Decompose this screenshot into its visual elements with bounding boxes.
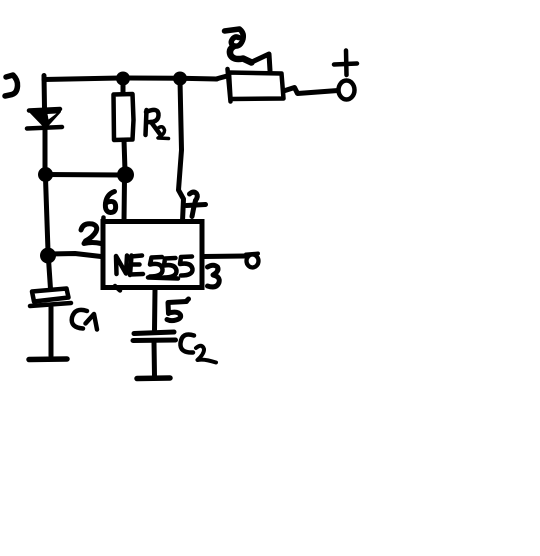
label NE555: [116, 256, 193, 279]
label C2: [180, 334, 216, 362]
wire: pin 5 lead: [152, 290, 158, 330]
pin label 5: [167, 299, 189, 321]
wire: R2 bottom lead: [124, 140, 125, 171]
pin label 3: [208, 265, 220, 287]
wire: diode cathode down to junction A: [43, 129, 48, 170]
label R2: [146, 110, 169, 139]
junction dot B (pin 2 tap): [40, 248, 56, 264]
wire: rail bend toward R1: [216, 76, 227, 79]
diode D: [27, 109, 62, 129]
terminal o (output): [246, 254, 259, 268]
capacitor C2: [133, 332, 176, 341]
resistor R1: [228, 69, 284, 102]
terminal + (supply circle): [339, 81, 355, 100]
junction dot (R2 bottom / pin 6): [117, 166, 134, 183]
label +: [334, 51, 357, 76]
wire: C2 to ground: [152, 342, 158, 376]
label C1: [72, 310, 97, 330]
wire: top rail: [44, 78, 217, 80]
pin label 2: [81, 224, 101, 244]
junction dot (top rail / pin 7 riser): [173, 72, 187, 86]
wire: left vertical from A down to B: [46, 178, 49, 251]
junction dot A: [38, 167, 53, 182]
pin label 7: [187, 192, 206, 216]
pin label 6: [105, 192, 115, 213]
wire: R2 top lead: [121, 80, 126, 94]
wire: pin 2 lead: [49, 254, 101, 257]
wire: C1 to ground: [49, 307, 54, 356]
wire: B down to C1: [49, 259, 51, 289]
wire: pin 3 output lead: [204, 254, 245, 260]
wire: pin 7 lead: [179, 80, 184, 221]
label D: [5, 75, 18, 96]
wire: left vertical, rail corner to diode anode: [42, 76, 48, 109]
label R1: [225, 29, 271, 71]
IC U1 NE555 box: [103, 218, 202, 291]
wire: mid rail from A to R2 bottom junction: [46, 172, 123, 178]
junction dot (top rail / R2 top): [116, 72, 130, 86]
ground (C2): [137, 375, 170, 381]
wire: pin 6 lead: [122, 179, 128, 221]
wire: R1 to + terminal: [284, 88, 339, 94]
capacitor C1: [30, 289, 71, 307]
resistor R2: [114, 94, 134, 140]
ground (C1): [29, 356, 67, 362]
